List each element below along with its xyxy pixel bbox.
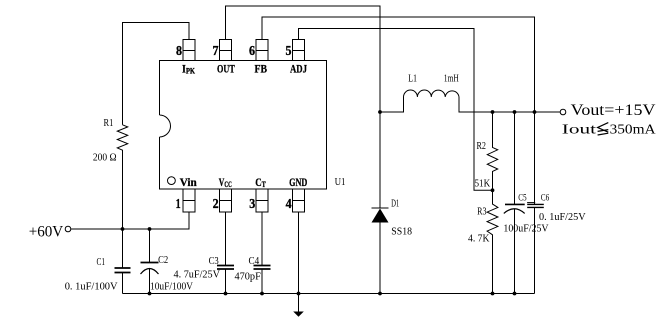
svg-text:FB: FB xyxy=(255,61,268,75)
svg-text:0. 1uF/25V: 0. 1uF/25V xyxy=(539,212,586,223)
svg-text:8: 8 xyxy=(176,44,182,59)
svg-text:D1: D1 xyxy=(391,199,399,210)
svg-text:C5: C5 xyxy=(518,193,527,203)
svg-text:R1: R1 xyxy=(104,118,114,129)
svg-text:1: 1 xyxy=(176,197,181,212)
svg-text:+60V: +60V xyxy=(29,223,64,240)
svg-text:C1: C1 xyxy=(97,257,106,268)
svg-text:4. 7K: 4. 7K xyxy=(468,234,490,245)
svg-text:ADJ: ADJ xyxy=(290,61,307,75)
svg-text:U1: U1 xyxy=(335,177,346,188)
svg-text:IPK: IPK xyxy=(182,61,196,75)
svg-text:Vin: Vin xyxy=(180,175,197,189)
svg-text:C2: C2 xyxy=(158,255,168,266)
svg-text:L1: L1 xyxy=(408,74,417,85)
svg-text:4: 4 xyxy=(286,197,292,212)
svg-text:350mA: 350mA xyxy=(610,123,657,138)
svg-text:4. 7uF/25V: 4. 7uF/25V xyxy=(174,270,221,281)
svg-text:0. 1uF/100V: 0. 1uF/100V xyxy=(65,282,118,293)
svg-text:C6: C6 xyxy=(541,193,550,203)
svg-text:OUT: OUT xyxy=(217,61,235,75)
svg-text:R2: R2 xyxy=(477,141,487,152)
svg-text:10uF/100V: 10uF/100V xyxy=(150,282,193,293)
svg-text:5: 5 xyxy=(286,44,292,59)
svg-text:200 Ω: 200 Ω xyxy=(93,153,117,164)
svg-text:SS18: SS18 xyxy=(391,227,412,238)
svg-text:470pF: 470pF xyxy=(235,271,261,282)
svg-text:Iout: Iout xyxy=(562,123,596,138)
svg-text:3: 3 xyxy=(249,197,255,212)
svg-text:R3: R3 xyxy=(477,206,486,217)
svg-text:1mH: 1mH xyxy=(444,74,459,85)
svg-text:C3: C3 xyxy=(209,256,219,267)
svg-text:Vout=+15V: Vout=+15V xyxy=(571,102,657,119)
svg-text:CT: CT xyxy=(255,175,266,189)
svg-text:2: 2 xyxy=(213,197,219,212)
svg-text:VCC: VCC xyxy=(219,175,232,189)
svg-text:GND: GND xyxy=(289,175,307,189)
svg-text:C4: C4 xyxy=(249,256,260,267)
svg-text:6: 6 xyxy=(249,44,255,59)
svg-text:100uF/25V: 100uF/25V xyxy=(503,224,549,235)
svg-text:51K: 51K xyxy=(475,179,491,190)
svg-text:7: 7 xyxy=(213,44,219,59)
